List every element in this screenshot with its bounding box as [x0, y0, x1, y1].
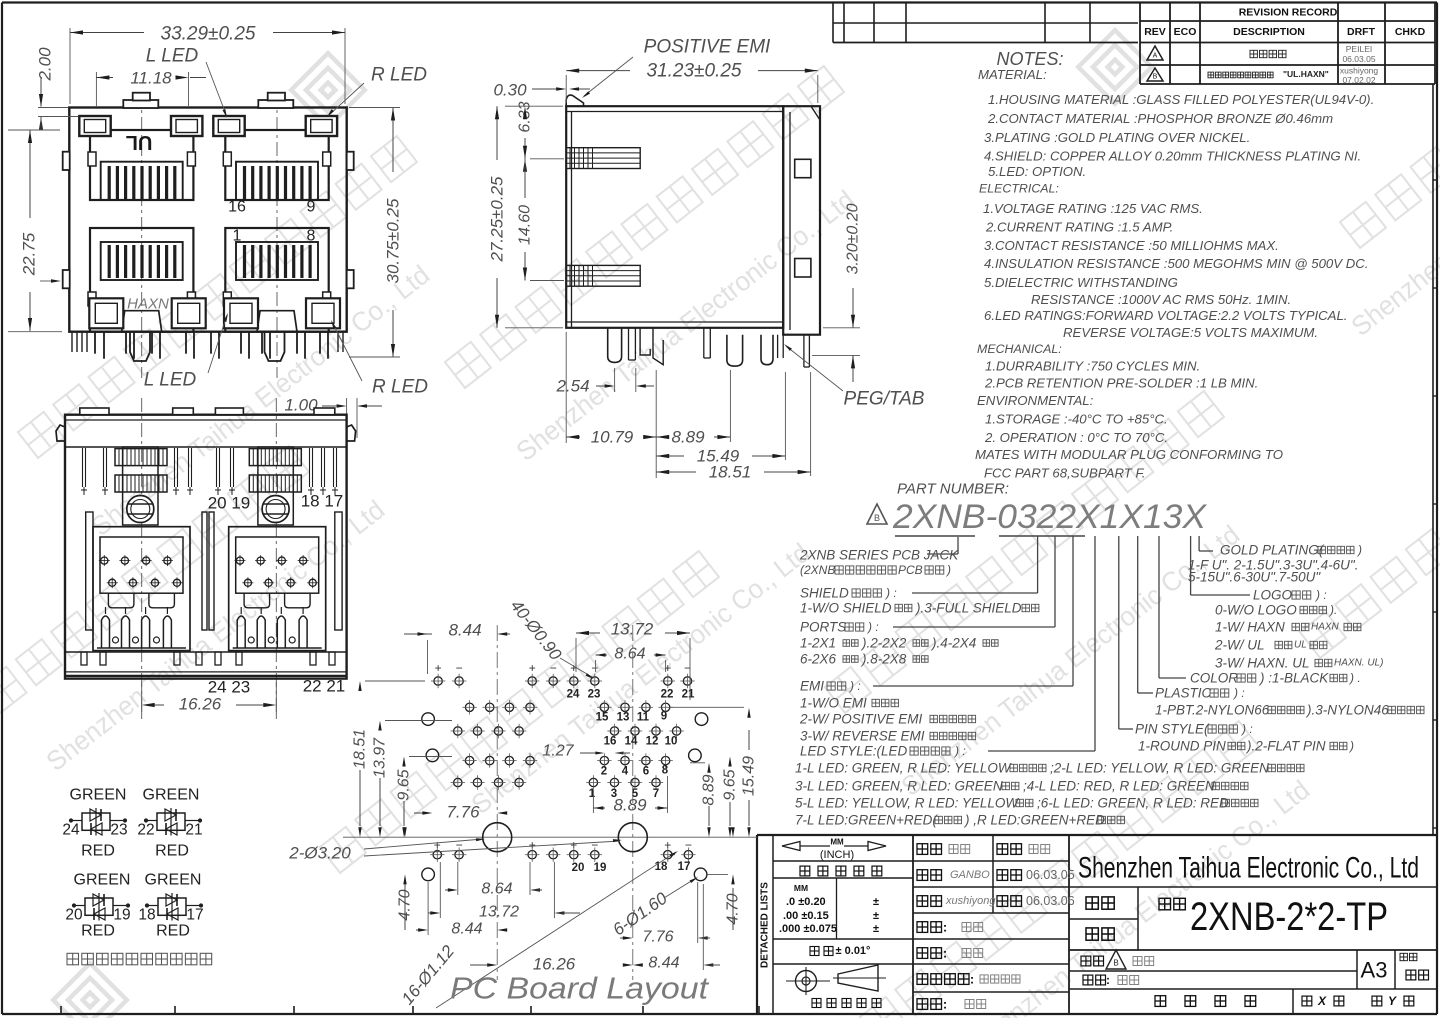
svg-text:±: ± [873, 923, 879, 935]
svg-text:7: 7 [653, 788, 659, 800]
svg-text:) :: ) : [1240, 722, 1253, 736]
svg-text:07.02.02: 07.02.02 [1342, 75, 1375, 85]
svg-text:3.PLATING :GOLD PLATING OVER: 3.PLATING :GOLD PLATING OVER NICKEL. [984, 130, 1250, 145]
svg-text:−: − [591, 661, 598, 675]
svg-text:FCC PART 68,SUBPART F.: FCC PART 68,SUBPART F. [984, 466, 1145, 481]
svg-text:).3-NYLON46: ).3-NYLON46 [1305, 703, 1389, 718]
svg-text:Y: Y [1388, 994, 1397, 1008]
svg-text:REVISION RECORD: REVISION RECORD [1239, 7, 1338, 19]
svg-text:) :: ) : [953, 744, 966, 758]
svg-text:1-W/O EMI: 1-W/O EMI [800, 696, 867, 711]
svg-text:REVERSE VOLTAGE:5 VOLTS M: REVERSE VOLTAGE:5 VOLTS MAXIMUM. [1063, 325, 1318, 340]
svg-text:PEG/TAB: PEG/TAB [844, 389, 925, 410]
svg-text:1-2X1: 1-2X1 [800, 636, 836, 651]
svg-text:) ,R LED:GREEN+RED: ) ,R LED:GREEN+RED [963, 813, 1105, 828]
svg-text:): ) [1348, 739, 1354, 753]
svg-text:1-ROUND PIN: 1-ROUND PIN [1138, 739, 1226, 754]
svg-text:11.18: 11.18 [130, 69, 172, 88]
svg-text:06.03.05: 06.03.05 [1026, 868, 1075, 882]
svg-text:33.29±0.25: 33.29±0.25 [161, 24, 256, 45]
svg-text:Shenzhen Taihua Electronic Co.: Shenzhen Taihua Electronic Co., Ltd [511, 185, 860, 467]
svg-text:X: X [1317, 994, 1327, 1008]
svg-text:−: − [591, 838, 598, 852]
svg-text:).2-2X2: ).2-2X2 [860, 636, 907, 651]
svg-text:7.76: 7.76 [446, 803, 480, 822]
svg-text:31.23±0.25: 31.23±0.25 [647, 61, 742, 82]
svg-text:2XNB-0322X1X13X: 2XNB-0322X1X13X [892, 498, 1207, 536]
svg-text:2.CURRENT RATING :1.5 AMP.: 2.CURRENT RATING :1.5 AMP. [985, 220, 1173, 235]
svg-text:20: 20 [65, 907, 83, 924]
svg-text::: : [943, 920, 947, 935]
svg-text:A3: A3 [1361, 958, 1388, 983]
svg-text:LOGO: LOGO [1253, 588, 1293, 603]
svg-text:1.STORAGE :-40°C TO +8: 1.STORAGE :-40°C TO +85°C. [985, 412, 1168, 427]
svg-text:MATERIAL:: MATERIAL: [978, 67, 1047, 82]
svg-text:).4-2X4: ).4-2X4 [930, 636, 976, 651]
svg-text:10.79: 10.79 [591, 428, 634, 447]
svg-text:8.44: 8.44 [451, 921, 482, 938]
svg-text:+: + [529, 661, 536, 675]
svg-text:1: 1 [233, 228, 242, 245]
svg-text:NOTES:: NOTES: [996, 49, 1063, 69]
svg-text:2.00: 2.00 [36, 47, 55, 82]
svg-text:ECO: ECO [1174, 26, 1197, 38]
svg-text:06.03.06: 06.03.06 [1026, 894, 1075, 908]
svg-text:(INCH): (INCH) [820, 849, 854, 861]
svg-text:MM: MM [794, 883, 808, 893]
svg-text:GREEN: GREEN [143, 787, 200, 804]
svg-text:2.PCB RETENTION PRE-SOLDER :: 2.PCB RETENTION PRE-SOLDER :1 LB MIN. [984, 376, 1258, 391]
svg-text:17: 17 [186, 907, 203, 924]
svg-text:2. OPERATION : 0°C TO 70°: 2. OPERATION : 0°C TO 70°C. [984, 430, 1168, 445]
svg-text:6: 6 [643, 766, 649, 778]
svg-text:RED: RED [81, 843, 115, 860]
svg-text:1.00: 1.00 [284, 396, 318, 415]
svg-text:±: ± [873, 896, 879, 908]
svg-text:REV: REV [1144, 26, 1166, 38]
svg-text:22 21: 22 21 [303, 677, 346, 696]
svg-text:COLOR: COLOR [1190, 671, 1238, 686]
svg-text:1-W/O SHIELD: 1-W/O SHIELD [800, 601, 892, 616]
svg-text:−: − [685, 838, 692, 852]
svg-text:+: + [434, 838, 441, 852]
svg-text:18: 18 [655, 861, 668, 873]
svg-text::: : [1106, 973, 1110, 987]
svg-text:DETACHED LISTS: DETACHED LISTS [760, 882, 771, 968]
svg-text:RED: RED [81, 923, 115, 940]
svg-text:1.DURRABILITY :750 CYCLES M: 1.DURRABILITY :750 CYCLES MIN. [985, 359, 1200, 374]
svg-text:06.03.05: 06.03.05 [1342, 54, 1375, 64]
svg-text:1.HOUSING MATERIAL :GLASS FI: 1.HOUSING MATERIAL :GLASS FILLED POLYEST… [988, 92, 1374, 107]
svg-text:16: 16 [604, 736, 617, 748]
svg-text:) .: ) . [1348, 671, 1361, 685]
svg-text:B: B [1113, 959, 1118, 968]
svg-text:2XNB SERIES PCB JACK: 2XNB SERIES PCB JACK [799, 548, 959, 563]
svg-text:18.51: 18.51 [709, 463, 752, 482]
svg-text:RED: RED [156, 923, 190, 940]
svg-text:3-W/ HAXN. UL: 3-W/ HAXN. UL [1215, 656, 1310, 671]
svg-text:14.60: 14.60 [517, 205, 534, 245]
svg-text:MM: MM [830, 838, 844, 847]
svg-text:R LED: R LED [372, 377, 428, 398]
svg-text:1-PBT.2-NYLON66: 1-PBT.2-NYLON66 [1155, 703, 1270, 718]
svg-text:23: 23 [588, 689, 601, 701]
svg-text:GANBO: GANBO [950, 869, 990, 881]
svg-text:8.44: 8.44 [448, 621, 481, 640]
svg-text:.000 ±0.075: .000 ±0.075 [779, 923, 837, 935]
svg-text:RED: RED [155, 843, 189, 860]
svg-text:ELECTRICAL:: ELECTRICAL: [979, 182, 1059, 196]
svg-text:): ) [1356, 543, 1362, 557]
svg-text:SHIELD: SHIELD [800, 586, 849, 601]
svg-text:RESISTANCE :1000V AC RMS 50: RESISTANCE :1000V AC RMS 50Hz. 1MIN. [1031, 292, 1291, 307]
svg-text:1.VOLTAGE RATING :125 VAC: 1.VOLTAGE RATING :125 VAC RMS. [983, 201, 1203, 216]
svg-text:13.97: 13.97 [372, 737, 389, 778]
svg-text:4.SHIELD: COPPER ALLOY 0.20m: 4.SHIELD: COPPER ALLOY 0.20mm THICKNESS … [984, 149, 1361, 164]
svg-text:12: 12 [646, 736, 659, 748]
svg-text:) :1-BLACK: ) :1-BLACK [1258, 671, 1329, 686]
svg-text:23: 23 [110, 822, 127, 839]
svg-text:).: ). [1328, 603, 1337, 617]
svg-text:+: + [570, 838, 577, 852]
svg-text:2.54: 2.54 [555, 377, 589, 396]
svg-text::: : [943, 946, 947, 961]
svg-text:PORTS: PORTS [800, 620, 846, 635]
svg-text:B: B [1153, 74, 1158, 81]
svg-text:+: + [529, 838, 536, 852]
svg-text:ENVIRONMENTAL:: ENVIRONMENTAL: [977, 393, 1094, 408]
svg-text:± 0.01°: ± 0.01° [836, 945, 871, 957]
svg-text:xushiyong: xushiyong [945, 895, 996, 907]
svg-text:PC Board Layout: PC Board Layout [450, 971, 710, 1006]
svg-text:9: 9 [661, 711, 667, 723]
svg-text:8.64: 8.64 [614, 646, 645, 663]
svg-text:20: 20 [572, 862, 585, 874]
svg-text:3.CONTACT RESISTANCE :50 MIL: 3.CONTACT RESISTANCE :50 MILLIOHMS MAX. [984, 238, 1279, 253]
svg-text:MATES WITH MODULAR PLUG CO: MATES WITH MODULAR PLUG CONFORMING TO [975, 447, 1283, 462]
svg-text:4.INSULATION RESISTANCE :500: 4.INSULATION RESISTANCE :500 MEGOHMS MIN… [984, 256, 1368, 271]
svg-text:24: 24 [62, 822, 80, 839]
svg-text:GREEN: GREEN [74, 872, 131, 889]
svg-text:2-W/ POSITIVE EMI: 2-W/ POSITIVE EMI [799, 712, 923, 727]
svg-text:GREEN: GREEN [145, 872, 202, 889]
svg-text:0-W/O LOGO: 0-W/O LOGO [1215, 603, 1297, 618]
svg-text:DESCRIPTION: DESCRIPTION [1233, 26, 1305, 38]
svg-text:7-L LED:GREEN+RED(: 7-L LED:GREEN+RED( [795, 813, 938, 828]
svg-text:;2-L LED: YELLOW, R LED: GR: ;2-L LED: YELLOW, R LED: GREEN [1050, 761, 1269, 776]
svg-text:PIN STYLE(: PIN STYLE( [1135, 722, 1210, 737]
svg-text:PEILEI: PEILEI [1346, 44, 1372, 54]
svg-text:2-Ø3.20: 2-Ø3.20 [288, 844, 351, 863]
svg-text:22: 22 [137, 822, 154, 839]
svg-text:HAXN: HAXN [1311, 622, 1340, 633]
svg-text:.0 ±0.20: .0 ±0.20 [786, 896, 826, 908]
svg-text:22.75: 22.75 [20, 232, 39, 276]
svg-text:3-L LED: GREEN, R LED: GREEN: 3-L LED: GREEN, R LED: GREEN [795, 779, 1003, 794]
svg-text:21: 21 [682, 689, 695, 701]
svg-text:CHKD: CHKD [1395, 26, 1426, 38]
svg-text:Shenzhen Taihua Electronic Co.: Shenzhen Taihua Electronic Co., Ltd [1078, 852, 1419, 885]
svg-text:.00 ±0.15: .00 ±0.15 [783, 910, 829, 922]
svg-text:) :: ) : [848, 679, 861, 693]
svg-text:19: 19 [113, 907, 130, 924]
svg-text:) :: ) : [1314, 588, 1327, 602]
svg-text:18: 18 [138, 907, 155, 924]
svg-text:LED STYLE:(LED: LED STYLE:(LED [800, 744, 908, 759]
svg-text:18 17: 18 17 [301, 492, 344, 511]
svg-text:13: 13 [617, 712, 630, 724]
svg-text:21: 21 [185, 822, 202, 839]
svg-text:EMI: EMI [800, 679, 824, 694]
svg-text:24: 24 [567, 689, 580, 701]
svg-text:1: 1 [589, 788, 596, 800]
svg-text:6.LED RATINGS:FORWARD VOLTAG: 6.LED RATINGS:FORWARD VOLTAGE:2.2 VOLTS … [984, 308, 1347, 323]
svg-text:PLASTIC: PLASTIC [1155, 686, 1212, 701]
svg-text:2-W/ UL: 2-W/ UL [1214, 638, 1265, 653]
svg-text:14: 14 [625, 736, 638, 748]
svg-text:(2XNB: (2XNB [800, 563, 835, 577]
svg-text:13.72: 13.72 [479, 904, 519, 921]
svg-text:16: 16 [228, 199, 246, 216]
svg-text::: : [943, 997, 947, 1012]
svg-text:HAXN. UL): HAXN. UL) [1334, 658, 1383, 669]
svg-text:20 19: 20 19 [208, 494, 251, 513]
svg-text:13.72: 13.72 [611, 620, 654, 639]
svg-text:xushiyong: xushiyong [1340, 66, 1379, 76]
svg-text:).8-2X8: ).8-2X8 [860, 652, 907, 667]
svg-text:11: 11 [637, 712, 650, 724]
svg-text:) :: ) : [1232, 686, 1245, 700]
svg-text:8: 8 [662, 765, 669, 777]
svg-text:15: 15 [596, 712, 609, 724]
svg-text:) :: ) : [884, 586, 897, 600]
svg-text:A: A [1153, 53, 1158, 60]
svg-text:8.89: 8.89 [701, 774, 718, 805]
svg-text:−: − [456, 661, 463, 675]
svg-text:;4-L LED: RED, R LED: GREEN: ;4-L LED: RED, R LED: GREEN [1023, 779, 1215, 794]
svg-text:6-2X6: 6-2X6 [800, 652, 837, 667]
svg-text:9.65: 9.65 [396, 769, 413, 800]
svg-text:8.64: 8.64 [481, 881, 512, 898]
svg-text:UL: UL [1294, 640, 1307, 651]
svg-text:1.27: 1.27 [542, 743, 574, 760]
svg-text:2: 2 [601, 766, 607, 778]
svg-text:9.65: 9.65 [722, 769, 739, 800]
svg-text:L LED: L LED [146, 46, 199, 67]
svg-text:R LED: R LED [371, 65, 427, 86]
svg-text:±: ± [873, 910, 879, 922]
svg-text:GOLD PLATING(: GOLD PLATING( [1220, 543, 1325, 558]
svg-text:).2-FLAT PIN: ).2-FLAT PIN [1245, 739, 1326, 754]
svg-text:8.44: 8.44 [648, 955, 679, 972]
svg-text:1-L LED: GREEN, R LED: YELLO: 1-L LED: GREEN, R LED: YELLOW [795, 761, 1012, 776]
svg-text:10: 10 [665, 736, 678, 748]
svg-text:HAXN: HAXN [127, 296, 169, 313]
svg-text:5-15U".6-30U".7-50U": 5-15U".6-30U".7-50U" [1188, 570, 1321, 585]
svg-text:8.89: 8.89 [671, 428, 705, 447]
svg-text::: : [970, 972, 974, 987]
svg-text:27.25±0.25: 27.25±0.25 [488, 176, 507, 263]
svg-text:5-L LED: YELLOW, R LED: YELL: 5-L LED: YELLOW, R LED: YELLOW [795, 796, 1019, 811]
svg-text:) :: ) : [866, 620, 879, 634]
svg-text:DRFT: DRFT [1347, 26, 1376, 38]
svg-text:30.75±0.25: 30.75±0.25 [384, 198, 403, 284]
svg-text:): ) [945, 563, 951, 577]
svg-text:L LED: L LED [144, 370, 197, 391]
svg-text:8.89: 8.89 [613, 796, 647, 815]
svg-text:B: B [874, 513, 880, 523]
svg-text:7.76: 7.76 [642, 929, 673, 946]
svg-text:18.51: 18.51 [352, 729, 369, 769]
svg-text:8: 8 [307, 228, 316, 245]
svg-text:17: 17 [678, 861, 691, 873]
svg-text:2XNB-2*2-TP: 2XNB-2*2-TP [1190, 895, 1388, 939]
svg-text:MECHANICAL:: MECHANICAL: [977, 342, 1062, 356]
svg-text:1-W/ HAXN: 1-W/ HAXN [1215, 620, 1285, 635]
svg-text:9: 9 [307, 199, 316, 216]
svg-text:;6-L LED: GREEN, R LED: RED: ;6-L LED: GREEN, R LED: RED [1037, 796, 1229, 811]
svg-text:5.DIELECTRIC WITHSTANDING: 5.DIELECTRIC WITHSTANDING [984, 275, 1178, 290]
svg-text:40-Ø0.90: 40-Ø0.90 [507, 596, 566, 664]
svg-text:22: 22 [661, 689, 674, 701]
svg-text:"UL.HAXN": "UL.HAXN" [1283, 69, 1329, 79]
svg-text:5.LED: OPTION.: 5.LED: OPTION. [988, 164, 1086, 179]
svg-text:4: 4 [622, 766, 629, 778]
svg-text:UL: UL [126, 131, 153, 153]
svg-text:19: 19 [594, 862, 607, 874]
svg-text:15.49: 15.49 [741, 756, 758, 796]
svg-text:0.30: 0.30 [493, 81, 527, 100]
svg-text:+: + [435, 661, 442, 675]
svg-text:3.20±0.20: 3.20±0.20 [845, 203, 862, 274]
svg-text:Shenzhen Taihua Electronic Co.: Shenzhen Taihua Electronic Co., Ltd [466, 538, 815, 820]
svg-text:PART NUMBER:: PART NUMBER: [897, 481, 1009, 498]
svg-text:).3-FULL SHIELD: ).3-FULL SHIELD [914, 601, 1022, 616]
svg-text:16.26: 16.26 [179, 695, 222, 714]
svg-text:POSITIVE EMI: POSITIVE EMI [644, 37, 771, 58]
svg-text:PCB: PCB [898, 563, 923, 577]
svg-text:+: + [664, 838, 671, 852]
svg-text:GREEN: GREEN [70, 787, 127, 804]
svg-text:2.CONTACT MATERIAL :PHOSPHO: 2.CONTACT MATERIAL :PHOSPHOR BRONZE Ø0.4… [987, 111, 1333, 126]
svg-text:3-W/ REVERSE EMI: 3-W/ REVERSE EMI [800, 729, 925, 744]
